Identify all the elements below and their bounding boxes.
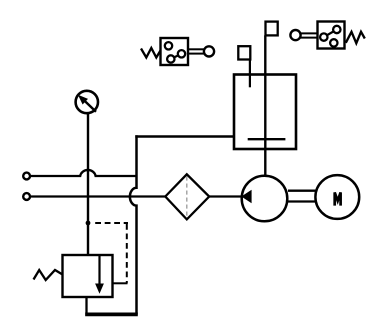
limit valve actuator S2: spring [346, 32, 365, 43]
wire: thick bottom return segment from relief valve outlet [85, 312, 138, 316]
limit valve actuator S1: roller wheel [204, 46, 214, 56]
limit valve actuator S2: body box [318, 22, 345, 49]
wire: relief valve outlet drop [85, 296, 87, 316]
wire: supply line from line B corner to tank left wall [135, 135, 234, 137]
port circle upper left [23, 173, 30, 180]
coupling shaft pump to motor [288, 191, 316, 202]
wire: dashed pilot line (vertical run) [126, 224, 128, 283]
wire: vertical line B with hop over lower port line [130, 135, 137, 314]
wire: upper port line with hop over line A [30, 170, 136, 176]
limit valve actuator S1: roller pins [165, 42, 172, 49]
filter F1 [165, 174, 209, 219]
breather square atop suction pipe [266, 22, 278, 36]
limit valve actuator S1: link between rollers [171, 54, 182, 59]
wire: pump suction pipe up through reservoir [264, 35, 266, 177]
pump P1 [241, 176, 287, 222]
wire: filler pipe into reservoir [249, 60, 251, 88]
wire: gauge stem / relief valve supply line A [87, 114, 89, 257]
wire: pilot line stub into valve right side [112, 282, 128, 284]
wire: dashed pilot line (top run) [95, 222, 128, 224]
limit valve actuator S2: link between rollers [324, 30, 337, 38]
port circle lower left [23, 193, 30, 200]
relief valve V1 [63, 255, 113, 297]
limit valve actuator S2: plunger rod [301, 33, 319, 37]
fluid level line inside reservoir [248, 138, 286, 140]
limit valve actuator S2: roller pins [320, 33, 327, 40]
limit valve actuator S2 (top right): roller wheel [290, 30, 300, 40]
spring of relief valve [34, 270, 63, 280]
reservoir T1 [234, 75, 296, 150]
limit valve actuator S1 (top left): spring [141, 48, 161, 58]
pressure gauge G1 [76, 91, 98, 113]
wire: filter outlet to pump inlet [209, 195, 244, 197]
limit valve actuator S1: body box [161, 38, 189, 65]
limit valve actuator S1: plunger rod [188, 49, 204, 53]
motor M1 [315, 175, 359, 219]
filler square on reservoir [238, 46, 250, 59]
junction dot: pilot tap on line A [86, 221, 91, 226]
wire: lower port line to filter inlet [30, 195, 166, 197]
